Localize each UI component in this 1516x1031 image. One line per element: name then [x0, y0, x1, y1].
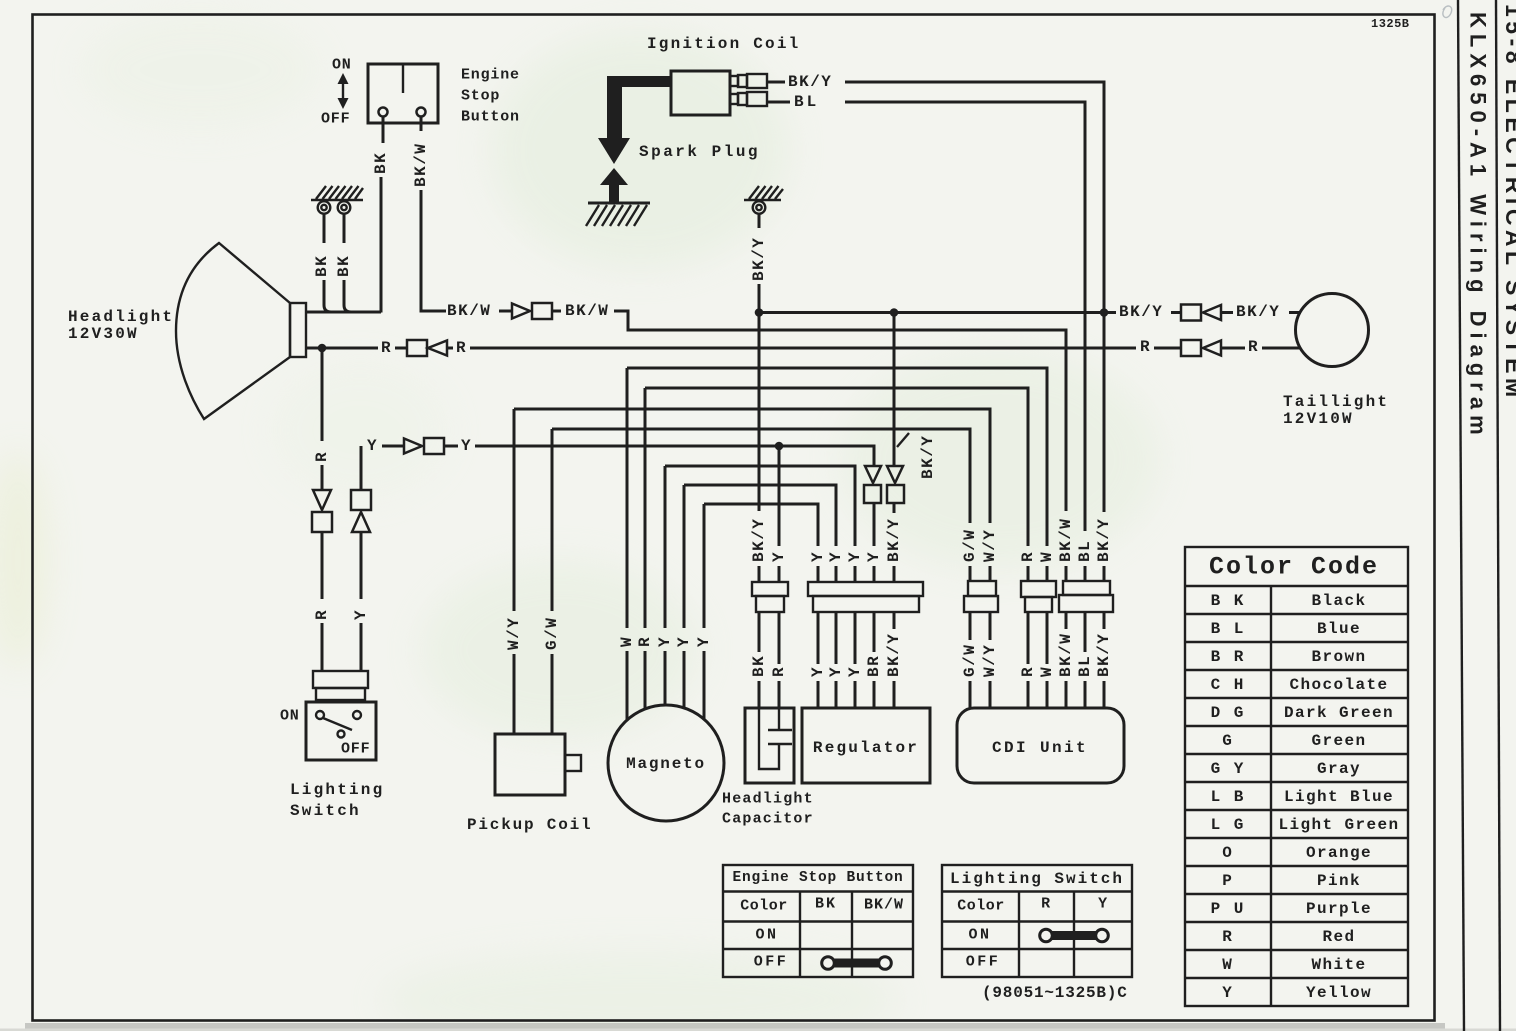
wire stubs into regulator: [818, 681, 894, 708]
svg-text:BK/Y: BK/Y: [1236, 303, 1280, 321]
svg-text:BK: BK: [335, 255, 353, 277]
svg-text:Stop: Stop: [461, 88, 500, 105]
svg-text:Spark Plug: Spark Plug: [639, 143, 760, 161]
labels CDI cols lower: [961, 633, 1113, 677]
svg-text:Y: Y: [827, 666, 845, 677]
connector arrow Y line: [404, 439, 422, 454]
svg-text:Y: Y: [656, 636, 674, 647]
headlight reflector: [176, 243, 290, 419]
svg-text:BK/W: BK/W: [1057, 633, 1075, 677]
wire stub: [444, 445, 458, 448]
wire G/W pickup coil riser: [551, 429, 554, 611]
wire diode column from Y-line: [873, 446, 876, 466]
wire G/W into pickup coil: [551, 654, 554, 734]
wire stub: [893, 503, 896, 513]
wire Y3 magneto riser: [703, 504, 706, 628]
wire Y down from junction: [778, 446, 781, 546]
wire BK/Y ground to bus: [758, 284, 761, 312]
svg-text:BK/Y: BK/Y: [750, 237, 768, 281]
wire Y1 line to regulator: [665, 466, 855, 546]
svg-text:G/W: G/W: [543, 617, 561, 650]
wire BK/W step down to CDI: [614, 311, 1066, 511]
wire W line to CDI: [627, 368, 1047, 546]
svg-text:OFF: OFF: [321, 111, 350, 128]
node Y junction: [775, 442, 784, 451]
wire BK from button: [382, 117, 385, 143]
svg-text:12V10W: 12V10W: [1283, 410, 1354, 428]
pencil squiggle: [1443, 6, 1452, 17]
svg-text:Y: Y: [827, 551, 845, 562]
svg-text:Ignition Coil: Ignition Coil: [647, 35, 800, 53]
svg-text:R: R: [1222, 928, 1234, 946]
svg-text:White: White: [1311, 956, 1366, 974]
ground (spark plug): [586, 203, 650, 226]
labels CDI cols upper: [961, 518, 1113, 562]
svg-text:ON: ON: [280, 708, 300, 725]
connector arrow R switch: [313, 490, 331, 510]
wire W/Y pickup coil riser: [513, 409, 516, 611]
svg-text:Y: Y: [1098, 896, 1108, 913]
connector CDI 1 (2 pin): [964, 581, 998, 612]
connector CDI 2 (2 pin): [1021, 581, 1056, 612]
spark plug electrode arrow: [600, 168, 628, 203]
wire BK/Y column to capacitor connector: [758, 313, 761, 512]
svg-text:W: W: [1038, 551, 1056, 562]
svg-text:R: R: [313, 451, 331, 462]
svg-text:R: R: [636, 636, 654, 647]
svg-text:BK: BK: [372, 152, 390, 174]
svg-text:Button: Button: [461, 109, 520, 126]
svg-text:BK/Y: BK/Y: [885, 518, 903, 562]
node BK/Y bus left junction: [755, 308, 764, 317]
connector arrow (reg pin5): [887, 466, 903, 483]
ground (headlight BK wires): [311, 186, 363, 214]
headlight lens: [290, 303, 306, 357]
svg-text:(98051~1325B)C: (98051~1325B)C: [982, 984, 1128, 1002]
svg-text:C H: C H: [1211, 676, 1246, 694]
scan background tint blobs: [0, 10, 1160, 1031]
svg-text:Gray: Gray: [1317, 760, 1361, 778]
connector square Y line: [424, 438, 444, 454]
svg-text:BK/W: BK/W: [565, 302, 609, 320]
svg-text:G/W: G/W: [961, 644, 979, 677]
label Engine Stop Button: [461, 67, 520, 126]
label Taillight 12V10W: [1283, 393, 1389, 428]
wire BK ground left: [323, 214, 326, 243]
svg-text:R: R: [1248, 338, 1259, 356]
wire Y into switch connector: [360, 623, 363, 671]
svg-text:ON: ON: [968, 927, 991, 944]
labels BK R (capacitor cols lower): [750, 655, 788, 677]
node R junction at headlight: [318, 344, 327, 353]
svg-text:Lighting: Lighting: [290, 781, 384, 799]
wire stub: [447, 347, 453, 350]
wire R into magneto: [644, 651, 647, 709]
capacitor C1 internals: [759, 708, 792, 769]
svg-text:Y: Y: [770, 551, 788, 562]
svg-text:BK/Y: BK/Y: [788, 73, 832, 91]
ignition coil U1: [671, 71, 767, 115]
wire BK ground right lower (hook to headlight line): [344, 280, 351, 312]
wire Y2 into magneto: [683, 651, 686, 708]
svg-text:Y: Y: [675, 636, 693, 647]
svg-text:W: W: [1038, 666, 1056, 677]
pickup coil box: [495, 734, 581, 795]
svg-text:ON: ON: [755, 927, 778, 944]
svg-text:Y: Y: [846, 551, 864, 562]
connector square (reg pin5): [887, 485, 904, 503]
wire BK/Y ground stub: [758, 214, 761, 228]
connector capacitor (2 pin): [752, 582, 788, 612]
wire Y1 magneto riser: [664, 466, 667, 628]
svg-text:BL: BL: [1076, 540, 1094, 562]
svg-text:BK/W: BK/W: [447, 302, 491, 320]
svg-text:W/Y: W/Y: [505, 617, 523, 650]
wire stubs into capacitor: [759, 681, 779, 708]
wire stub coil BK/Y: [767, 81, 785, 84]
node BK/Y bus right junction: [1100, 308, 1109, 317]
wire stub: [1154, 347, 1181, 350]
svg-text:Y: Y: [695, 636, 713, 647]
lighting switch S1: [306, 702, 376, 760]
svg-text:Color Code: Color Code: [1209, 553, 1379, 582]
svg-text:Switch: Switch: [290, 802, 361, 820]
lighting switch table: [942, 865, 1132, 977]
wire to taillight top: [1289, 311, 1301, 314]
spark plug thick HT lead: [598, 76, 671, 164]
svg-text:Magneto: Magneto: [626, 755, 706, 773]
wire stub: [382, 445, 404, 448]
wire stubs into CDI: [970, 681, 1104, 708]
wire Y3 line to regulator: [704, 504, 818, 546]
svg-text:BL: BL: [1076, 655, 1094, 677]
wire stub: [758, 566, 761, 582]
svg-text:P: P: [1222, 872, 1234, 890]
wire R line to CDI: [645, 388, 1028, 546]
svg-text:L G: L G: [1211, 816, 1246, 834]
svg-text:R: R: [456, 339, 467, 357]
svg-text:R: R: [1019, 666, 1037, 677]
svg-text:Y: Y: [865, 551, 883, 562]
lighting switch ON contact bar: [1040, 929, 1109, 942]
wire Y column from Y-line corner: [360, 446, 363, 490]
engine stop button table: [723, 865, 913, 977]
wire BL coil to right then down: [845, 102, 1085, 531]
wire BK/Y bus: [759, 311, 1116, 314]
svg-text:Y: Y: [846, 666, 864, 677]
svg-text:O: O: [1222, 844, 1234, 862]
wire BK ground left lower (hook to headlight line): [324, 280, 331, 312]
svg-text:G: G: [1222, 732, 1234, 750]
color code rows: [1211, 592, 1400, 1002]
svg-text:Pickup Coil: Pickup Coil: [467, 816, 592, 834]
svg-text:Y: Y: [809, 551, 827, 562]
svg-text:Orange: Orange: [1306, 844, 1372, 862]
svg-text:Taillight: Taillight: [1283, 393, 1389, 411]
connector arrow (reg pin4): [865, 466, 881, 483]
headlight capacitor C1 box: [745, 708, 794, 783]
wire stubs below regulator connector: [818, 612, 894, 664]
wire Y line to regulator column: [475, 446, 874, 466]
wire stub: [873, 503, 876, 546]
svg-text:Yellow: Yellow: [1306, 984, 1372, 1002]
label Headlight 12V30W: [68, 308, 174, 343]
wire BK ground right: [343, 214, 346, 243]
svg-text:Y: Y: [809, 666, 827, 677]
scanner gray band at bottom edge: [25, 1023, 1445, 1029]
engine stop button box: [368, 64, 438, 123]
connector square R headlight: [407, 340, 427, 356]
wire stubs CDI cols upper: [970, 566, 1104, 582]
svg-text:Chocolate: Chocolate: [1289, 676, 1388, 694]
svg-text:OFF: OFF: [754, 954, 789, 971]
svg-text:Y: Y: [367, 437, 378, 455]
ground (BK/Y near spark plug): [744, 186, 783, 214]
wire Y3 into magneto: [703, 651, 706, 719]
wire R down to lighting switch upper: [321, 348, 324, 441]
svg-text:BK/W: BK/W: [412, 143, 430, 187]
svg-text:BK: BK: [815, 896, 837, 913]
regulator U2 box: [802, 708, 930, 783]
connector arrow BK/Y taillight: [1203, 305, 1221, 320]
wire BK/Y coil to right then down: [845, 82, 1104, 512]
wire stub: [499, 310, 512, 313]
magneto G1: [608, 705, 724, 821]
wire stubs below CDI connectors: [970, 612, 1104, 664]
svg-text:Y: Y: [352, 609, 370, 620]
svg-text:Color: Color: [740, 898, 788, 915]
wire stubs below capacitor connector: [759, 612, 779, 664]
wire BK/W from button: [420, 117, 423, 131]
svg-text:W: W: [618, 636, 636, 647]
svg-text:W: W: [1222, 956, 1234, 974]
svg-text:Dark Green: Dark Green: [1284, 704, 1394, 722]
svg-text:OFF: OFF: [966, 954, 1001, 971]
svg-text:15-8 ELECTRICAL SYSTEM: 15-8 ELECTRICAL SYSTEM: [1501, 4, 1516, 402]
svg-text:BK/Y: BK/Y: [1095, 633, 1113, 677]
label Headlight Capacitor: [722, 791, 814, 828]
engine stop button OFF contact bar: [822, 957, 892, 970]
svg-text:Black: Black: [1311, 592, 1366, 610]
ON/OFF double arrow: [338, 73, 349, 109]
svg-text:KLX650-A1 Wiring Diagram: KLX650-A1 Wiring Diagram: [1466, 12, 1491, 441]
wire stub coil BL: [767, 101, 790, 104]
svg-text:CDI Unit: CDI Unit: [992, 739, 1088, 757]
svg-text:Headlight: Headlight: [722, 791, 814, 808]
svg-text:Light Green: Light Green: [1278, 816, 1399, 834]
wire W/Y line to CDI: [514, 409, 990, 523]
svg-text:R: R: [770, 666, 788, 677]
svg-text:Red: Red: [1322, 928, 1355, 946]
svg-text:Y: Y: [1222, 984, 1234, 1002]
wire R into switch connector: [321, 623, 324, 671]
wire to taillight bottom: [1262, 347, 1300, 350]
svg-text:Lighting Switch: Lighting Switch: [950, 870, 1124, 888]
connector arrow R headlight: [428, 341, 447, 356]
wire BK from button lower: [380, 177, 383, 313]
svg-text:BK: BK: [313, 255, 331, 277]
connector square R switch: [312, 512, 332, 532]
svg-text:P U: P U: [1211, 900, 1246, 918]
svg-text:G Y: G Y: [1211, 760, 1246, 778]
sidebar rule 2: [1496, 0, 1500, 1031]
svg-text:W/Y: W/Y: [981, 644, 999, 677]
svg-text:Regulator: Regulator: [813, 739, 919, 757]
connector square R taillight: [1181, 340, 1201, 356]
svg-text:BK/W: BK/W: [1057, 518, 1075, 562]
wire G/W line to CDI: [552, 429, 970, 523]
svg-text:Pink: Pink: [1317, 872, 1361, 890]
connector square BK/Y taillight: [1181, 305, 1201, 321]
wire R lower: [321, 532, 324, 599]
svg-text:1325B: 1325B: [1371, 17, 1410, 31]
svg-text:R: R: [381, 339, 392, 357]
svg-text:Capacitor: Capacitor: [722, 811, 814, 828]
svg-text:BK/Y: BK/Y: [919, 435, 937, 479]
svg-text:Brown: Brown: [1311, 648, 1366, 666]
svg-text:B K: B K: [1211, 592, 1246, 610]
svg-text:Green: Green: [1311, 732, 1366, 750]
node BK/Y bus mid junction: [890, 308, 899, 317]
wire R bus: [470, 347, 1136, 350]
connector regulator (5 pin): [808, 582, 923, 612]
wire R magneto riser: [644, 388, 647, 628]
connector square Y switch: [351, 490, 371, 510]
label BK/Y (annotation slash): [897, 433, 909, 447]
connector arrow BK/W: [512, 304, 530, 319]
svg-text:BR: BR: [865, 655, 883, 677]
sidebar rule 1: [1458, 0, 1464, 1031]
svg-text:Y: Y: [461, 437, 472, 455]
svg-text:G/W: G/W: [961, 529, 979, 562]
wire W/Y into pickup coil: [513, 654, 516, 734]
wire stub: [395, 347, 407, 350]
wire stub: [1221, 311, 1233, 314]
svg-text:BK: BK: [750, 655, 768, 677]
lighting switch connector: [313, 671, 368, 700]
wire BK/W vertical lower + stub: [421, 190, 446, 311]
svg-text:R: R: [313, 609, 331, 620]
wire stub: [1171, 311, 1181, 314]
svg-text:Headlight: Headlight: [68, 308, 174, 326]
svg-text:W/Y: W/Y: [981, 529, 999, 562]
svg-text:B R: B R: [1211, 648, 1246, 666]
svg-text:BL: BL: [794, 93, 819, 111]
svg-text:OFF: OFF: [341, 741, 370, 758]
wire headlight R terminal: [306, 347, 378, 350]
svg-text:R: R: [1019, 551, 1037, 562]
svg-text:Purple: Purple: [1306, 900, 1372, 918]
wire W into magneto: [626, 651, 629, 721]
connector square (reg pin4): [864, 485, 881, 503]
svg-text:Engine Stop Button: Engine Stop Button: [732, 870, 903, 886]
svg-text:12V30W: 12V30W: [68, 325, 139, 343]
taillight bulb: [1296, 294, 1369, 367]
svg-text:Engine: Engine: [461, 67, 520, 84]
svg-text:Color: Color: [957, 898, 1005, 915]
connector CDI 3 (3 pin): [1059, 581, 1113, 612]
wire stubs regulator cols upper: [818, 566, 894, 582]
labels regulator cols lower: [809, 633, 903, 677]
color code table: [1185, 547, 1408, 1006]
svg-text:B L: B L: [1211, 620, 1246, 638]
connector arrow Y switch: [352, 512, 370, 532]
svg-text:BK/W: BK/W: [864, 897, 904, 914]
wire stub: [778, 566, 781, 582]
svg-text:L B: L B: [1211, 788, 1246, 806]
svg-text:BK/Y: BK/Y: [1095, 518, 1113, 562]
svg-text:R: R: [1140, 338, 1151, 356]
wire stub: [552, 310, 561, 313]
CDI unit U3 box: [957, 708, 1124, 783]
labels Y Y Y (regulator cols upper): [809, 518, 903, 562]
wire R to diode symbol: [321, 465, 324, 490]
connector arrow R taillight: [1203, 341, 1221, 356]
svg-text:BK/Y: BK/Y: [1119, 303, 1163, 321]
wire Y2 magneto riser: [683, 485, 686, 628]
wire stub: [1221, 347, 1245, 350]
svg-text:Blue: Blue: [1317, 620, 1361, 638]
wire Y lower: [360, 532, 363, 599]
svg-text:Light Blue: Light Blue: [1284, 788, 1394, 806]
wire W magneto riser: [626, 368, 629, 628]
wire BK/Y from bus to diode: [893, 313, 896, 467]
connector square BK/W: [532, 303, 552, 319]
wire headlight top terminal: [306, 311, 381, 314]
svg-text:BK/Y: BK/Y: [885, 633, 903, 677]
wire Y2 line to regulator: [684, 485, 836, 546]
wire Y1 into magneto: [664, 651, 667, 705]
svg-text:D G: D G: [1211, 704, 1246, 722]
svg-text:R: R: [1041, 896, 1051, 913]
svg-text:BK/Y: BK/Y: [750, 518, 768, 562]
label Lighting Switch: [290, 781, 384, 820]
svg-text:ON: ON: [332, 57, 352, 74]
